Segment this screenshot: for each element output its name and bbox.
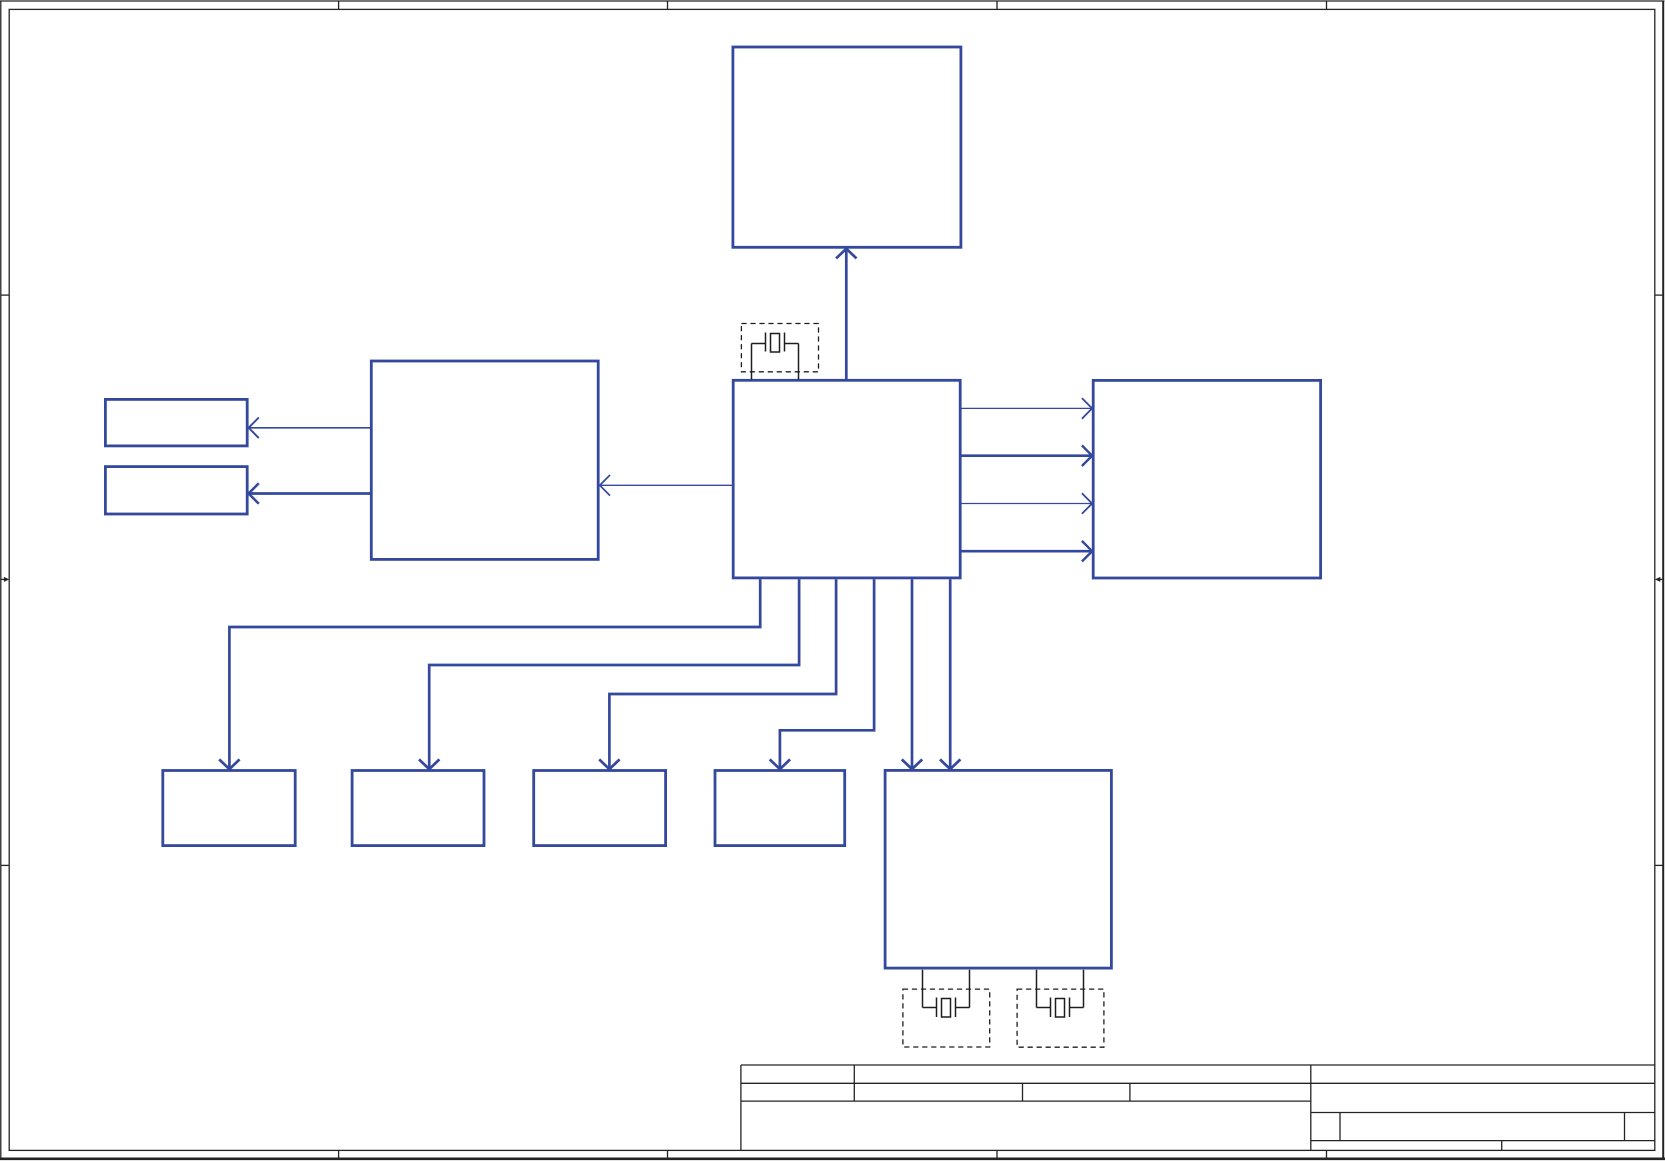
title block	[741, 1065, 1655, 1150]
crystal Y3 (below big box, right, dashed enclosure)	[1017, 970, 1104, 1047]
block: bottom big box (RF module)	[885, 770, 1111, 968]
block: top display	[733, 47, 961, 247]
crystal Y2 (below big box, left, dashed enclosure)	[903, 970, 990, 1047]
wire: MCU to bottom box 3	[599, 579, 836, 769]
wire: MCU to right peripheral line 1 (thin arrow right)	[962, 398, 1093, 419]
block: bottom box 3	[534, 771, 666, 846]
wire: MCU to top display (arrow up)	[836, 249, 856, 379]
wire: MCU to right peripheral line 2 (thick arrow right)	[962, 445, 1093, 466]
wire: left controller to output B (thick arrow left)	[249, 483, 370, 504]
block: MCU (center)	[733, 380, 960, 578]
block: left controller	[371, 361, 598, 559]
wire: MCU to bottom big box line 5	[902, 579, 922, 769]
block: right peripheral	[1093, 380, 1320, 578]
crystal Y1 (above MCU, dashed enclosure)	[741, 324, 818, 380]
block: left small output B	[105, 467, 247, 514]
wire: MCU to left controller (arrow left)	[600, 475, 732, 496]
wire: MCU to right peripheral line 4 (thick arrow right)	[962, 541, 1093, 562]
wire: MCU to bottom box 4	[770, 579, 874, 769]
wire: left controller to output A (thin arrow left)	[249, 418, 370, 439]
wire: MCU to bottom box 1	[219, 579, 760, 769]
block: bottom box 1	[163, 771, 295, 846]
block: bottom box 4	[715, 771, 845, 846]
wire: MCU to bottom box 2	[419, 579, 799, 769]
block: left small output A	[105, 399, 247, 446]
wire: MCU to bottom big box line 6	[940, 579, 960, 769]
wire: MCU to right peripheral line 3 (thin arrow right)	[962, 493, 1093, 514]
block: bottom box 2	[352, 771, 484, 846]
